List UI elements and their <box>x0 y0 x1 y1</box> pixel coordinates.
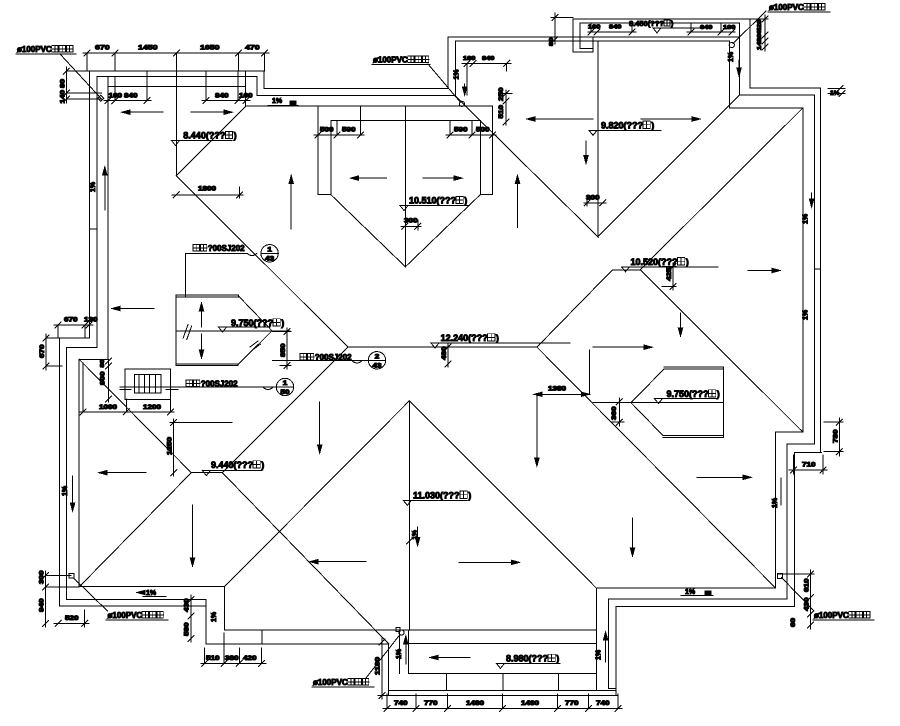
wire bottom-left step at x=206-225 <box>224 586 226 629</box>
svg-text:1%: 1% <box>803 309 810 320</box>
arrow slope top-left gutter right <box>191 111 232 113</box>
svg-text:12.240(???: 12.240(??? <box>441 333 488 343</box>
svg-text:160: 160 <box>239 94 253 100</box>
svg-text:1380: 1380 <box>548 387 567 393</box>
svg-text:): ) <box>717 389 720 399</box>
arrow slope 10.510 left <box>351 177 387 179</box>
wire top mass parapet inner lines y=37-41 <box>448 36 739 38</box>
valley 9.440 down-right <box>222 473 388 644</box>
hip 10.510 right <box>405 195 480 267</box>
dim 80/900 hatch vertical <box>108 359 110 402</box>
ridge top-left mass vertical <box>175 71 177 176</box>
ridge 9.750 left centerline <box>176 330 290 332</box>
wire top-right notch horizontals <box>730 107 803 109</box>
svg-text:840: 840 <box>482 56 494 62</box>
wire top step down at x=257-264 <box>263 71 265 88</box>
svg-text:1%: 1% <box>211 611 218 622</box>
hip 9.440 from left wall corner <box>79 359 191 472</box>
dim 850 right of left pentagon <box>286 328 288 369</box>
arrow slope 10.510 right <box>423 177 462 179</box>
svg-text:?00SJ202: ?00SJ202 <box>201 380 238 389</box>
arrow slope above right pentagon <box>593 346 652 348</box>
svg-text:1450: 1450 <box>138 45 158 52</box>
svg-text:9.820(???: 9.820(??? <box>601 120 643 130</box>
wire main top eave y=106 <box>246 105 493 107</box>
svg-text:1%: 1% <box>272 98 283 105</box>
svg-text:710: 710 <box>802 463 816 469</box>
svg-text:300: 300 <box>404 219 418 225</box>
wire right edge lower <box>775 432 777 588</box>
svg-text:850: 850 <box>281 343 287 357</box>
dim 160/840 top mass left <box>588 31 636 33</box>
svg-text:80: 80 <box>549 38 555 46</box>
svg-text:250: 250 <box>499 87 505 101</box>
svg-text:670: 670 <box>64 318 78 324</box>
valley 12.240 right-down to bottom-right corner <box>537 347 776 588</box>
svg-text:1200: 1200 <box>143 405 162 411</box>
ridge 10.520 <box>613 269 641 271</box>
label 9.750 right level <box>654 399 662 404</box>
svg-text:): ) <box>496 333 499 343</box>
svg-text:840: 840 <box>609 25 621 31</box>
label 9.750 left level <box>219 327 227 332</box>
arrow vertical 1380 down <box>536 396 538 466</box>
svg-text:160: 160 <box>109 94 123 100</box>
svg-text:510: 510 <box>206 656 220 662</box>
label 12.240 level <box>431 343 439 348</box>
svg-text:740: 740 <box>394 701 408 707</box>
wire hatch centerline leader <box>120 386 276 388</box>
break marks on hatch centerline <box>120 388 131 390</box>
wire top mass right end verticals <box>749 19 751 88</box>
arrow slope 9.820 left <box>527 118 593 120</box>
ridge 9.440 <box>191 472 222 474</box>
svg-text:590: 590 <box>454 128 468 134</box>
arrow slope pentagon gutter left <box>112 308 154 310</box>
svg-text:): ) <box>468 490 471 500</box>
apex 11.030 diagonals <box>225 401 410 587</box>
wire upper step eave band y=88-95 <box>264 87 448 89</box>
arrow slope 12.240 plane left <box>310 561 366 563</box>
svg-text:470: 470 <box>245 45 260 52</box>
hip 12.240 left-down to 9.440 <box>222 347 348 473</box>
arrow slope 12.240 plane right <box>459 561 520 563</box>
svg-text:1480: 1480 <box>521 701 540 707</box>
svg-text:160: 160 <box>463 56 475 62</box>
svg-text:11.030(???: 11.030(??? <box>413 490 460 500</box>
dim 425 at 10.520 <box>672 263 674 290</box>
svg-text:480: 480 <box>442 346 448 360</box>
svg-text:160: 160 <box>723 25 735 31</box>
ridge 11.030 vertical <box>408 401 410 630</box>
wire left lower edge <box>58 338 60 606</box>
svg-text:640: 640 <box>700 25 712 31</box>
hip 10.510 left <box>331 195 406 267</box>
svg-text:1%: 1% <box>803 213 810 224</box>
ridge 9.820 vertical <box>597 41 599 237</box>
wire channel verticals x=448-455 up to top mass band <box>447 37 449 88</box>
arrow slope 9.820 right <box>641 118 700 120</box>
svg-text:610: 610 <box>805 578 811 592</box>
svg-text:1650: 1650 <box>200 45 220 52</box>
dim 500/590 left of 10.510 <box>314 134 364 136</box>
dim 710 right edge <box>789 469 827 471</box>
svg-text:): ) <box>234 131 237 141</box>
label 11.030 level <box>403 500 411 505</box>
svg-text:): ) <box>464 196 467 206</box>
svg-text:80: 80 <box>100 359 106 367</box>
label 10.510 level <box>400 206 408 211</box>
svg-text:1%: 1% <box>146 590 157 597</box>
wire leader to callout 2/43 <box>273 360 298 362</box>
dim 60 bottom right small <box>808 622 814 628</box>
svg-text:1%: 1% <box>454 69 461 80</box>
arrow left gutter up <box>104 167 106 210</box>
svg-text:770: 770 <box>565 701 579 707</box>
hip 9.820 right arm L1 <box>598 95 739 236</box>
dim 300 at 9.820 ridge <box>584 202 606 204</box>
svg-text:500: 500 <box>320 128 334 134</box>
svg-text:770: 770 <box>424 701 438 707</box>
svg-text:500: 500 <box>476 128 490 134</box>
svg-text:580: 580 <box>185 622 191 636</box>
ridge 12.240 <box>348 346 537 348</box>
arrow pentagon left up <box>201 303 203 327</box>
dim 840/160 right y=100.6 <box>202 100 250 102</box>
dim 1380 right center <box>534 393 589 395</box>
svg-text:8.980(???: 8.980(??? <box>506 653 548 663</box>
svg-text:ø100PVC: ø100PVC <box>814 611 849 620</box>
wire bottom-left section horizontals <box>80 585 225 587</box>
arrow vertical between masses up <box>290 176 292 229</box>
svg-text:900: 900 <box>101 371 107 385</box>
hip 12.240 left-up to top-left mass <box>176 176 348 347</box>
arrow slope top-left gutter left <box>122 111 163 113</box>
arrow vertical right plane down <box>632 518 634 556</box>
dim 1090/1200 below hatch <box>79 411 174 413</box>
svg-text:160: 160 <box>588 25 600 31</box>
svg-text:1%: 1% <box>685 589 696 596</box>
hip top-left mass up-right <box>176 106 245 176</box>
svg-text:670: 670 <box>95 45 110 52</box>
svg-text:8.440(???: 8.440(??? <box>183 131 225 141</box>
arrow vertical left plane down <box>192 505 194 566</box>
dim 1250 left of 9.440 <box>173 419 175 476</box>
svg-text:780: 780 <box>834 429 840 443</box>
svg-text:8.450(???: 8.450(??? <box>629 19 664 28</box>
wire bottom-center protrusion left side <box>388 644 390 696</box>
dim 780 right edge <box>838 418 840 456</box>
dim 480 at 12.240 <box>447 344 449 367</box>
dim 670/130 left step <box>54 324 93 326</box>
hip 10.520 right down <box>640 270 803 432</box>
label 9.440 level <box>202 471 210 476</box>
arrow 10.520 lower plane down <box>680 313 682 336</box>
tick division left gutter <box>90 228 98 230</box>
roof window 9.750 right pentagon <box>723 367 725 437</box>
dim 610/430 bottom right <box>810 570 812 629</box>
callout 2/43 with leader <box>300 354 306 360</box>
svg-text:ø100PVC: ø100PVC <box>17 45 52 54</box>
break mark on centerline <box>183 325 188 339</box>
svg-text:940: 940 <box>40 598 46 612</box>
svg-text:ø100PVC: ø100PVC <box>373 56 408 65</box>
svg-text:9.750(???: 9.750(??? <box>231 318 273 328</box>
wire bottom-center protrusion right side <box>595 588 597 691</box>
svg-text:): ) <box>651 120 654 130</box>
svg-text:10.510(???: 10.510(??? <box>409 196 456 206</box>
dim 510/380/420 bottom left <box>201 662 266 664</box>
svg-text:420: 420 <box>243 656 257 662</box>
svg-text:130: 130 <box>84 318 98 324</box>
dim 160/840 left y=100.6 <box>104 100 151 102</box>
svg-text:520: 520 <box>65 616 79 622</box>
dim 590/500 right of 10.510 <box>446 134 496 136</box>
svg-text:1090: 1090 <box>99 405 118 411</box>
wire leader reference lines <box>66 92 101 94</box>
svg-text:140: 140 <box>61 89 67 103</box>
svg-text:43: 43 <box>373 363 383 369</box>
label 10.520 level <box>622 267 630 272</box>
svg-text:10.520(???: 10.520(??? <box>631 257 678 267</box>
svg-text:510: 510 <box>499 104 505 118</box>
svg-text:ø100PVC: ø100PVC <box>769 3 804 12</box>
wire bottom-right section horizontals <box>596 587 775 589</box>
hip 9.820 left arm <box>455 96 598 237</box>
wire top mass outer eave y=18.8 <box>573 18 750 20</box>
hip 9.440 down-left to corner <box>80 473 192 587</box>
svg-text:1%: 1% <box>728 51 735 62</box>
svg-text:1%: 1% <box>772 497 779 508</box>
dim top-left 80/140 vertical <box>65 67 67 103</box>
svg-text:380: 380 <box>225 656 239 662</box>
dim top chain 670/1450/1650/470 <box>83 52 269 54</box>
wire bottom-center protrusion bottom <box>409 673 597 675</box>
svg-text:360: 360 <box>612 406 618 420</box>
svg-text:140: 140 <box>757 38 763 50</box>
svg-text:670: 670 <box>40 344 46 358</box>
dim 160/840 at channel <box>462 62 511 64</box>
arrow slope 12.240 left <box>99 472 146 474</box>
svg-text:1%: 1% <box>62 485 69 496</box>
svg-text:50: 50 <box>281 390 291 396</box>
wire bottom band between steps y=629-644 <box>225 629 597 631</box>
svg-text:80: 80 <box>61 78 67 88</box>
wire right edge step at y=432-452 <box>776 431 803 433</box>
svg-text:43: 43 <box>265 256 275 262</box>
wire 10.510 left leg <box>317 106 319 195</box>
svg-text:1800: 1800 <box>198 187 217 193</box>
roof window 9.750 left pentagon <box>175 295 177 365</box>
callout 1/43 with leader <box>193 245 199 251</box>
wire wall between upper-left mass and main roof <box>245 71 247 106</box>
dim 1800 in top-left mass <box>172 194 243 196</box>
svg-text:740: 740 <box>596 701 610 707</box>
arrow pentagon left down <box>201 334 203 358</box>
arrow slope 10.520 plane right <box>748 270 780 272</box>
svg-text:1%: 1% <box>596 649 603 660</box>
svg-text:60: 60 <box>791 617 797 627</box>
svg-text:840: 840 <box>215 94 229 100</box>
dim 430/580 left step vertical <box>190 595 192 642</box>
svg-text:ø100PVC: ø100PVC <box>313 678 348 687</box>
svg-text:1250: 1250 <box>168 436 174 455</box>
label 9.820 level <box>589 130 597 135</box>
wire 10.510 right leg <box>479 120 481 194</box>
arrow small 9.820 near ridge <box>585 141 587 164</box>
tick division bottom band <box>446 674 448 691</box>
dim 640/160 top mass right <box>687 31 735 33</box>
roof hatch with grid <box>125 369 170 400</box>
dim 360 at right pentagon <box>618 398 620 426</box>
hip D2 from right wall corner <box>640 108 803 270</box>
svg-text:ø100PVC: ø100PVC <box>108 611 143 620</box>
svg-text:9.440(???: 9.440(??? <box>211 460 253 470</box>
svg-text:?00SJ202: ?00SJ202 <box>208 244 245 253</box>
wire left step at y=338-359 <box>59 337 90 339</box>
label 8.980 level <box>497 663 505 668</box>
svg-text:425: 425 <box>667 267 673 281</box>
svg-text:590: 590 <box>342 128 356 134</box>
svg-text:300: 300 <box>586 196 600 202</box>
wire right edge upper (wall/inner/outer) <box>802 108 804 432</box>
svg-text:430: 430 <box>185 598 191 612</box>
arrow slope 8.980 left <box>430 657 470 659</box>
dim bottom chain 740/770/1480/1480/770/740 <box>383 708 622 710</box>
svg-text:): ) <box>556 653 559 663</box>
svg-text:): ) <box>261 460 264 470</box>
dim 300 at 10.510 <box>401 225 421 227</box>
callout 1/50 with leader <box>186 380 192 386</box>
svg-text:): ) <box>281 318 284 328</box>
dim 670 left step vertical <box>45 334 47 370</box>
svg-text:9.750(???: 9.750(??? <box>667 389 709 399</box>
svg-text:1%: 1% <box>90 181 97 192</box>
break mark on lower diagonal <box>250 341 258 347</box>
dim 1180 bottom center vertical <box>381 638 383 699</box>
ridge 10.510 center <box>404 106 406 267</box>
dim 300/940 bottom-left corner vertical <box>45 571 47 627</box>
wire bottom-center protrusion upper line <box>409 643 597 645</box>
svg-text:1%: 1% <box>396 648 403 659</box>
svg-text:): ) <box>686 257 689 267</box>
tick division right gutter <box>814 268 820 270</box>
arrow slope right section right <box>697 476 751 478</box>
svg-text:840: 840 <box>124 94 138 100</box>
dim 520 bottom-left <box>54 622 89 624</box>
valley 10.520 left to 12.240 ridge <box>537 270 613 347</box>
label 8.440 level <box>172 141 180 146</box>
svg-text:300: 300 <box>40 570 46 584</box>
dim 250/510 right of 10.510 leg <box>505 90 507 125</box>
ridge 9.750 right centerline <box>593 402 724 404</box>
arrow vertical 9.820 left up <box>517 175 519 227</box>
dim 420/160/140 top right vertical <box>764 15 766 51</box>
label 8.450 level on top mass <box>653 28 661 33</box>
arrow vertical 12.240 down left <box>319 402 321 453</box>
wire eave outline top-left mass <box>66 70 264 72</box>
dim 80 top mass far left <box>554 13 556 44</box>
wire top mass left notch <box>572 19 574 52</box>
svg-text:1480: 1480 <box>466 701 485 707</box>
